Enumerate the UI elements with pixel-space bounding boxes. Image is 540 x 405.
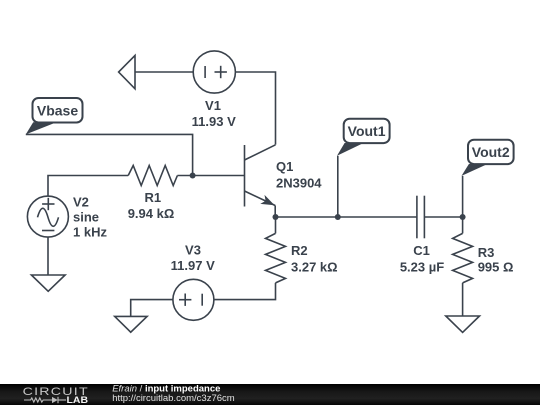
wire V2 bottom to ground: [47, 237, 49, 275]
wire emitter node to C1: [276, 216, 417, 218]
wire R1 to transistor base: [177, 175, 244, 177]
node flag Vbase: [26, 98, 83, 134]
wire R2 top lead: [275, 217, 277, 233]
wire emitter down to node: [274, 206, 276, 218]
svg-text:Q1: Q1: [276, 159, 293, 174]
svg-text:C1: C1: [413, 243, 430, 258]
wire V1 positive to collector column: [235, 72, 275, 145]
svg-text:5.23 µF: 5.23 µF: [400, 260, 444, 275]
svg-text:11.97 V: 11.97 V: [171, 258, 215, 273]
ground (below R3): [446, 316, 480, 332]
svg-text:9.94 kΩ: 9.94 kΩ: [128, 206, 175, 221]
resistor R3: [453, 233, 473, 283]
junction at base node: [190, 173, 196, 179]
svg-text:R1: R1: [144, 190, 161, 205]
wire R3 top lead: [462, 217, 464, 233]
svg-text:V2: V2: [73, 195, 89, 210]
voltage source V1: [193, 51, 235, 93]
wire V2 top to R1: [48, 176, 128, 197]
svg-text:Vout2: Vout2: [472, 144, 510, 160]
svg-text:http://circuitlab.com/c3z76cm: http://circuitlab.com/c3z76cm: [112, 393, 235, 404]
svg-text:2N3904: 2N3904: [276, 176, 322, 191]
resistor R1: [128, 166, 177, 186]
svg-text:LAB: LAB: [67, 395, 89, 405]
svg-text:3.27 kΩ: 3.27 kΩ: [291, 260, 338, 275]
transistor Q1: [245, 145, 276, 207]
wire R2 bottom to V3: [214, 283, 275, 300]
svg-text:11.93 V: 11.93 V: [192, 114, 236, 129]
footer bar: [0, 384, 540, 405]
junction at Vout2 node: [460, 214, 466, 220]
wire Vout1 probe: [337, 156, 339, 217]
resistor R2: [266, 233, 286, 283]
ground (below V3): [115, 316, 147, 332]
wire Vbase to base column: [26, 134, 193, 175]
ground (below V2): [31, 275, 65, 291]
capacitor C1: [417, 196, 425, 239]
CircuitLab logo resistor-diode icon: [24, 397, 66, 403]
svg-text:Vbase: Vbase: [37, 102, 78, 118]
junction at Vout1 node: [335, 214, 341, 220]
svg-text:sine: sine: [73, 210, 99, 225]
node flag Vout1: [337, 119, 390, 156]
svg-text:R2: R2: [291, 243, 308, 258]
wire ground to V1: [135, 71, 193, 73]
svg-text:1 kHz: 1 kHz: [73, 225, 107, 240]
wire V3 negative to ground: [131, 300, 173, 317]
ground (rotated left, at V1 negative terminal): [119, 56, 135, 89]
node flag Vout2: [462, 140, 514, 176]
wire Vout2 probe: [462, 176, 464, 217]
wire C1 to R3 node: [424, 216, 462, 218]
voltage source V3: [173, 279, 214, 320]
svg-text:Vout1: Vout1: [348, 123, 386, 139]
wire R3 bottom to ground: [462, 283, 464, 316]
svg-text:V1: V1: [205, 98, 221, 113]
svg-text:V3: V3: [185, 242, 201, 257]
svg-text:R3: R3: [478, 245, 495, 260]
voltage source V2 (sine): [27, 196, 68, 237]
junction at emitter node: [273, 214, 279, 220]
svg-text:995 Ω: 995 Ω: [478, 260, 514, 275]
